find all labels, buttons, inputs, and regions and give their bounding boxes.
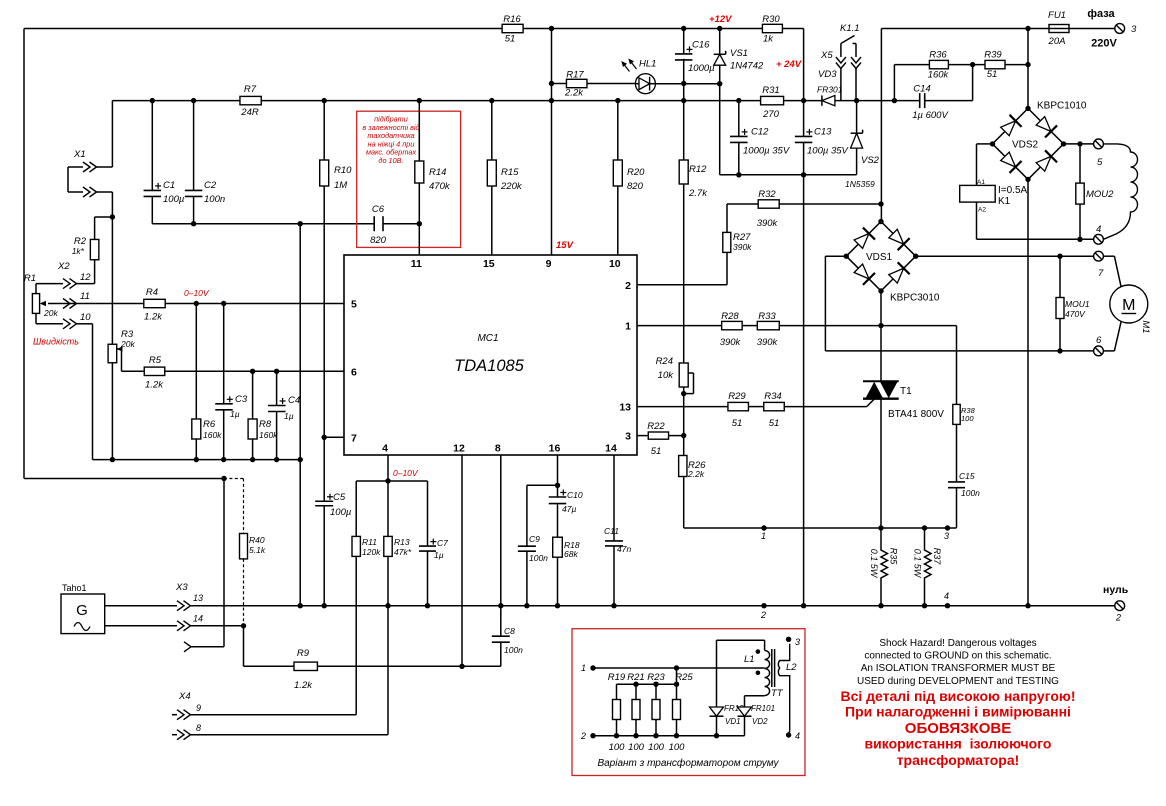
junction R25 top xyxy=(674,665,679,670)
resistor R16 xyxy=(502,24,523,32)
svg-text:1000µ: 1000µ xyxy=(688,63,715,74)
wire X4-8 xyxy=(191,734,389,736)
svg-text:3: 3 xyxy=(795,637,800,647)
resistor R23 xyxy=(652,700,660,720)
svg-text:R40: R40 xyxy=(249,535,265,545)
resistor R32 xyxy=(758,200,779,208)
svg-text:160k: 160k xyxy=(203,430,222,440)
resistor R10 xyxy=(323,101,325,160)
wire pin7 stub xyxy=(324,436,344,438)
svg-text:100: 100 xyxy=(609,742,626,753)
wire 656 bottom xyxy=(655,720,657,736)
svg-text:C11: C11 xyxy=(604,526,619,536)
junction dots pin6 line xyxy=(250,369,255,374)
svg-text:використання ізолюючого: використання ізолюючого xyxy=(865,736,1052,752)
resistor R38 xyxy=(953,404,960,424)
wire R32 to x881 xyxy=(779,203,881,205)
junction dots on 15V rail xyxy=(150,98,155,103)
svg-text:R33: R33 xyxy=(758,311,776,322)
junction VDS1 corners xyxy=(844,254,849,259)
wire variant line2 xyxy=(593,735,745,737)
wire triac bottom xyxy=(880,399,882,528)
junction MOU1 bottom xyxy=(1057,348,1062,353)
capacitor C14 xyxy=(919,93,921,108)
svg-text:8: 8 xyxy=(495,443,501,455)
svg-text:15: 15 xyxy=(483,258,495,270)
svg-text:51: 51 xyxy=(651,446,662,457)
svg-text:MC1: MC1 xyxy=(477,333,498,344)
junction R2 node xyxy=(110,214,115,219)
svg-text:K1: K1 xyxy=(998,196,1011,207)
svg-text:При налагодженні і вимірюванні: При налагодженні і вимірюванні xyxy=(845,704,1071,720)
wire mains vertical x=803.6 lower xyxy=(803,142,805,605)
svg-text:R24: R24 xyxy=(656,356,673,367)
wire R18 to rail xyxy=(557,557,559,606)
svg-text:+12V: +12V xyxy=(709,14,732,25)
svg-text:C12: C12 xyxy=(751,127,769,138)
svg-text:FU1: FU1 xyxy=(1048,10,1066,21)
svg-text:390k: 390k xyxy=(720,337,742,348)
svg-text:VS1: VS1 xyxy=(730,48,748,59)
diode FR301 xyxy=(822,95,835,105)
LED HL1 xyxy=(635,74,655,94)
svg-text:160k: 160k xyxy=(928,70,950,81)
svg-text:L2: L2 xyxy=(786,662,797,673)
wire frame bottom horizontal to dashed node xyxy=(24,478,224,480)
svg-text:R23: R23 xyxy=(647,672,665,683)
svg-text:USED during DEVELOPMENT and TE: USED during DEVELOPMENT and TESTING xyxy=(857,676,1059,687)
svg-text:1000µ 35V: 1000µ 35V xyxy=(743,146,791,157)
resistor R18 xyxy=(553,537,563,557)
resistor R28 xyxy=(722,321,743,329)
wire VDS1 bottom to triac xyxy=(880,291,882,381)
junction C16/R12 on led line xyxy=(681,81,686,86)
svg-text:M: M xyxy=(1122,297,1135,314)
terminal neutral xyxy=(1115,601,1125,611)
junction pin1 line end xyxy=(878,323,883,328)
fuse FU1 xyxy=(1049,25,1069,33)
svg-text:KBPC3010: KBPC3010 xyxy=(890,293,940,304)
svg-text:C15: C15 xyxy=(959,471,975,481)
wire fuse to phase terminal xyxy=(1069,28,1115,30)
svg-text:TDA1085: TDA1085 xyxy=(454,357,525,375)
svg-text:2: 2 xyxy=(760,610,766,620)
svg-text:3: 3 xyxy=(625,431,631,443)
wire R26 bottom xyxy=(683,477,685,529)
junction dots 459 line xyxy=(110,457,115,462)
wire x300 vertical xyxy=(299,224,301,606)
svg-text:47k*: 47k* xyxy=(394,547,412,557)
diode VD1 xyxy=(716,640,718,707)
svg-text:R8: R8 xyxy=(259,419,272,430)
svg-text:100n: 100n xyxy=(529,553,548,563)
svg-text:5: 5 xyxy=(351,299,357,311)
svg-text:KBPC1010: KBPC1010 xyxy=(1037,101,1087,112)
wire 636 bottom xyxy=(635,720,637,736)
wire relay A2 line xyxy=(976,202,978,239)
resistor R31 xyxy=(761,96,784,104)
svg-text:R13: R13 xyxy=(394,537,410,547)
svg-text:Всі деталі під високою напруго: Всі деталі під високою напругою! xyxy=(840,688,1075,704)
svg-text:2.7k: 2.7k xyxy=(688,188,708,199)
wire x881 vertical top xyxy=(880,29,882,222)
capacitor C9 xyxy=(518,545,536,547)
transformer core xyxy=(771,649,773,687)
svg-text:R29: R29 xyxy=(728,391,746,402)
svg-text:100n: 100n xyxy=(961,488,980,498)
resistor R29 xyxy=(728,402,749,410)
wire 15V rail xyxy=(112,100,240,102)
svg-text:R15: R15 xyxy=(501,167,519,178)
svg-text:R21: R21 xyxy=(627,672,644,683)
svg-text:47n: 47n xyxy=(617,544,631,554)
svg-text:51: 51 xyxy=(505,34,516,45)
diode VD2 xyxy=(744,696,746,707)
resistor R26 xyxy=(679,456,687,477)
wire top rail after R30 xyxy=(782,28,803,30)
dashed R40 to pin14 wire xyxy=(243,559,245,626)
svg-text:R6: R6 xyxy=(203,419,216,430)
junction dots 24V line xyxy=(736,172,741,177)
wire C9 branch xyxy=(527,484,558,486)
resistor R2 xyxy=(90,239,99,259)
svg-text:R9: R9 xyxy=(297,648,310,659)
svg-text:BTA41 800V: BTA41 800V xyxy=(888,409,944,420)
variant terminal 1 xyxy=(590,665,595,670)
wire pin11 node line xyxy=(152,223,374,225)
wire top rail left xyxy=(24,28,502,30)
capacitor C6 xyxy=(373,216,375,231)
svg-text:100n: 100n xyxy=(504,645,523,655)
wire VDS2 top feed xyxy=(1027,29,1029,109)
svg-text:1.2k: 1.2k xyxy=(144,312,163,323)
resistor R19 xyxy=(613,700,621,720)
svg-text:100: 100 xyxy=(669,742,686,753)
resistor R30 xyxy=(762,24,782,32)
wire R27 top xyxy=(726,204,728,232)
resistor R15 xyxy=(491,101,493,160)
wire X3-14 down to R9 xyxy=(243,626,245,667)
svg-text:R12: R12 xyxy=(689,164,707,175)
resistor R17 xyxy=(552,83,567,85)
svg-text:X2: X2 xyxy=(57,261,70,272)
wire left frame vertical xyxy=(23,29,25,479)
svg-text:0–10V: 0–10V xyxy=(184,288,210,298)
svg-text:1: 1 xyxy=(761,531,766,541)
svg-text:до 10В.: до 10В. xyxy=(378,156,403,165)
svg-text:VD3: VD3 xyxy=(818,69,837,80)
svg-text:C8: C8 xyxy=(504,626,515,636)
wire pin9 vertical xyxy=(551,29,553,256)
svg-text:9: 9 xyxy=(196,703,201,713)
svg-text:трансформатора!: трансформатора! xyxy=(897,752,1020,768)
svg-text:A2: A2 xyxy=(978,207,986,214)
transformer L2 winding xyxy=(778,644,789,731)
resistor R13 xyxy=(387,481,389,536)
svg-text:270: 270 xyxy=(762,109,780,120)
svg-text:C9: C9 xyxy=(529,534,540,544)
svg-text:R19: R19 xyxy=(608,672,626,683)
svg-text:0.1 5W: 0.1 5W xyxy=(869,549,879,579)
svg-text:R5: R5 xyxy=(149,355,162,366)
wire pin12 vertical xyxy=(461,455,463,666)
resistor R40 xyxy=(240,534,248,559)
wire x224 vertical xyxy=(223,479,225,647)
wire R9 line xyxy=(317,665,500,667)
svg-text:5.1k: 5.1k xyxy=(249,545,266,555)
wire 24V bottom line xyxy=(720,174,857,176)
svg-text:3: 3 xyxy=(1131,24,1137,35)
resistor R11 xyxy=(355,481,357,536)
capacitor C8 xyxy=(500,606,502,637)
svg-text:K1.1: K1.1 xyxy=(840,23,860,34)
dashed R40 link xyxy=(224,478,244,480)
svg-text:100: 100 xyxy=(628,742,645,753)
svg-text:R22: R22 xyxy=(647,421,665,432)
wire variant line1 xyxy=(593,667,765,669)
svg-text:470V: 470V xyxy=(1065,309,1086,319)
svg-text:10k: 10k xyxy=(658,370,675,381)
svg-text:1.2k: 1.2k xyxy=(294,680,313,691)
transformer polarity dots xyxy=(756,649,761,654)
resistor R39 xyxy=(985,60,1005,68)
svg-text:connected to GROUND on this sc: connected to GROUND on this schematic. xyxy=(864,651,1051,662)
svg-text:R39: R39 xyxy=(984,50,1002,61)
motor M1 xyxy=(1103,255,1114,257)
svg-text:2.2k: 2.2k xyxy=(564,88,584,99)
wire mains vertical x=803.6 upper xyxy=(803,29,805,137)
svg-text:20k: 20k xyxy=(43,308,58,318)
svg-text:C10: C10 xyxy=(567,490,583,500)
junction MOU1 top xyxy=(1057,254,1062,259)
red note box xyxy=(357,111,461,247)
svg-text:10: 10 xyxy=(609,258,621,270)
svg-text:390k: 390k xyxy=(757,218,779,229)
resistor R7 xyxy=(240,96,261,104)
wire LED to C16 xyxy=(655,83,683,85)
wire armature line y=351 xyxy=(825,350,1093,352)
svg-text:12: 12 xyxy=(453,443,465,455)
wire pin3 stub xyxy=(637,435,648,437)
svg-text:C4: C4 xyxy=(288,395,300,406)
resistor R20 xyxy=(617,101,619,160)
IC MC1 TDA1085 box xyxy=(344,255,637,455)
wire fuse through-line xyxy=(1049,28,1069,30)
varistor MOU1 xyxy=(1059,256,1061,297)
svg-text:14: 14 xyxy=(193,614,203,624)
svg-text:R30: R30 xyxy=(762,14,780,25)
svg-text:T1: T1 xyxy=(900,386,912,397)
svg-text:0.1 5W: 0.1 5W xyxy=(913,549,923,579)
wire pin14 vertical xyxy=(613,455,615,541)
wire pin4 node line xyxy=(356,480,427,482)
capacitor C5 xyxy=(315,500,333,502)
wire pin11 drop xyxy=(418,224,420,255)
svg-text:C1: C1 xyxy=(163,180,175,191)
junction R32 end xyxy=(878,201,883,206)
relay K1 coil xyxy=(960,185,996,202)
svg-text:68k: 68k xyxy=(564,549,578,559)
capacitor C12 xyxy=(738,101,740,137)
svg-text:7: 7 xyxy=(1098,268,1104,279)
resistor R33 xyxy=(757,321,779,329)
junction dots pin5 line xyxy=(194,301,199,306)
svg-text:51: 51 xyxy=(987,69,998,80)
wire R38 branch top xyxy=(956,326,958,405)
wire X2-11 to R4 xyxy=(77,303,144,305)
svg-text:100µ: 100µ xyxy=(163,194,185,205)
svg-text:1N5359: 1N5359 xyxy=(845,179,875,189)
wire pin6 line xyxy=(165,370,344,372)
svg-text:47µ: 47µ xyxy=(562,504,576,514)
junction node1 dots xyxy=(761,525,766,530)
svg-text:1µ 600V: 1µ 600V xyxy=(912,110,949,121)
svg-text:470k: 470k xyxy=(429,181,451,192)
svg-text:11: 11 xyxy=(411,258,422,270)
wire 459 line xyxy=(93,459,301,461)
junction dots bottom rail xyxy=(298,603,303,608)
svg-text:R20: R20 xyxy=(627,167,645,178)
capacitor C16 xyxy=(683,29,685,55)
svg-text:14: 14 xyxy=(605,443,617,455)
wire VDS2 left to relay xyxy=(977,143,993,145)
wire pin16 vertical xyxy=(557,455,559,497)
wire R36 line xyxy=(894,64,929,66)
svg-text:2: 2 xyxy=(580,731,586,741)
svg-text:C13: C13 xyxy=(814,127,832,138)
svg-text:100n: 100n xyxy=(204,194,225,205)
junction dots on top rail xyxy=(549,26,554,31)
wire R10 down xyxy=(323,186,325,502)
varistor MOU2 xyxy=(1079,144,1081,183)
wire node1 line y=528 xyxy=(684,527,957,529)
svg-text:Швидкість: Швидкість xyxy=(33,337,79,347)
svg-text:A1: A1 xyxy=(977,179,985,186)
svg-text:C14: C14 xyxy=(913,84,930,95)
svg-text:10: 10 xyxy=(80,312,91,323)
svg-text:M1: M1 xyxy=(1140,320,1151,333)
svg-text:51: 51 xyxy=(769,418,780,429)
wire R38 to C15 xyxy=(956,424,958,481)
wire R3 wiper to R5 xyxy=(122,370,145,372)
svg-text:X1: X1 xyxy=(73,149,86,160)
wire bottom rail xyxy=(191,605,1115,607)
svg-text:L1: L1 xyxy=(744,654,755,665)
svg-text:4: 4 xyxy=(1096,224,1101,235)
svg-text:MOU1: MOU1 xyxy=(1065,299,1090,309)
svg-text:VD1: VD1 xyxy=(725,717,741,726)
svg-text:R1: R1 xyxy=(24,273,36,284)
svg-text:820: 820 xyxy=(627,181,644,192)
svg-text:R28: R28 xyxy=(721,311,739,322)
svg-text:нуль: нуль xyxy=(1103,584,1129,596)
wire VDS1 left to 825 xyxy=(825,255,846,257)
svg-text:220k: 220k xyxy=(500,181,523,192)
capacitor C1 xyxy=(151,101,153,191)
terminal 7 xyxy=(1094,251,1104,261)
wire R17 to LED xyxy=(587,83,635,85)
svg-text:1µ: 1µ xyxy=(284,411,294,421)
wire R13 to rail xyxy=(387,556,389,605)
svg-text:1M: 1M xyxy=(334,180,347,191)
junction pin7 xyxy=(322,435,327,440)
svg-text:R32: R32 xyxy=(758,189,776,200)
wire VS1 bottom down xyxy=(719,84,721,175)
variant terminal 3 xyxy=(786,637,791,642)
wire C10 to R18 xyxy=(557,504,559,538)
svg-text:7: 7 xyxy=(351,432,357,444)
resistor R14 xyxy=(418,101,420,161)
junction R22 node xyxy=(681,433,686,438)
svg-text:X5: X5 xyxy=(820,50,833,61)
terminal phase 220V xyxy=(1115,24,1125,34)
svg-text:R14: R14 xyxy=(429,167,446,178)
svg-text:2: 2 xyxy=(625,280,631,292)
junction MOU2 bottom xyxy=(1077,237,1082,242)
svg-text:4: 4 xyxy=(795,731,800,741)
svg-text:R11: R11 xyxy=(362,537,377,547)
wire top rail right segment xyxy=(881,28,1049,30)
svg-text:100: 100 xyxy=(648,742,665,753)
wire R11 to X4-9 xyxy=(355,556,357,714)
wire pin8 vertical xyxy=(500,455,502,606)
svg-text:HL1: HL1 xyxy=(639,59,656,70)
svg-text:51: 51 xyxy=(732,418,743,429)
svg-text:R16: R16 xyxy=(503,14,521,25)
svg-text:R35: R35 xyxy=(889,548,899,566)
resistor R25 xyxy=(673,700,681,720)
zener VS1 xyxy=(719,29,721,55)
svg-text:R17: R17 xyxy=(566,70,584,81)
wire X2-10 down xyxy=(77,323,93,325)
svg-text:16: 16 xyxy=(549,443,561,455)
resistor R5 xyxy=(144,367,165,375)
svg-text:R25: R25 xyxy=(675,672,693,683)
svg-text:C3: C3 xyxy=(235,394,248,405)
svg-text:R4: R4 xyxy=(146,287,158,298)
svg-text:390k: 390k xyxy=(733,242,752,252)
svg-text:120k: 120k xyxy=(362,547,381,557)
svg-text:0–10V: 0–10V xyxy=(393,468,419,478)
svg-text:100µ 35V: 100µ 35V xyxy=(807,146,850,157)
svg-text:C5: C5 xyxy=(333,492,346,503)
capacitor C10 xyxy=(549,496,567,498)
svg-text:100: 100 xyxy=(961,414,974,423)
svg-text:фаза: фаза xyxy=(1087,8,1115,20)
junction R24 wiper xyxy=(681,391,686,396)
svg-text:C6: C6 xyxy=(372,204,385,215)
wire VD1 top link xyxy=(717,639,765,641)
wire 616.5 bottom xyxy=(616,720,618,736)
capacitor C13 xyxy=(795,135,813,137)
wire VDS2 right to term5 xyxy=(1064,143,1094,145)
svg-text:15V: 15V xyxy=(556,240,574,251)
bridge VDS2 xyxy=(993,108,1064,179)
svg-text:Варіант з трансформатором стру: Варіант з трансформатором струму xyxy=(597,757,779,769)
bridge VDS1 xyxy=(846,222,915,291)
wire pin4 stub xyxy=(387,455,389,481)
svg-text:6: 6 xyxy=(1096,335,1102,346)
svg-text:C7: C7 xyxy=(437,538,448,548)
wire pin1 line xyxy=(637,325,722,327)
junction R17 tap xyxy=(549,81,554,86)
svg-text:Shock Hazard! Dangerous voltag: Shock Hazard! Dangerous voltages xyxy=(879,638,1036,649)
wire 676.5 bottom xyxy=(676,720,678,736)
resistor R34 xyxy=(764,402,785,410)
svg-text:13: 13 xyxy=(193,593,203,603)
wire pin2 line xyxy=(637,284,727,286)
wire X4-9 xyxy=(191,714,357,716)
